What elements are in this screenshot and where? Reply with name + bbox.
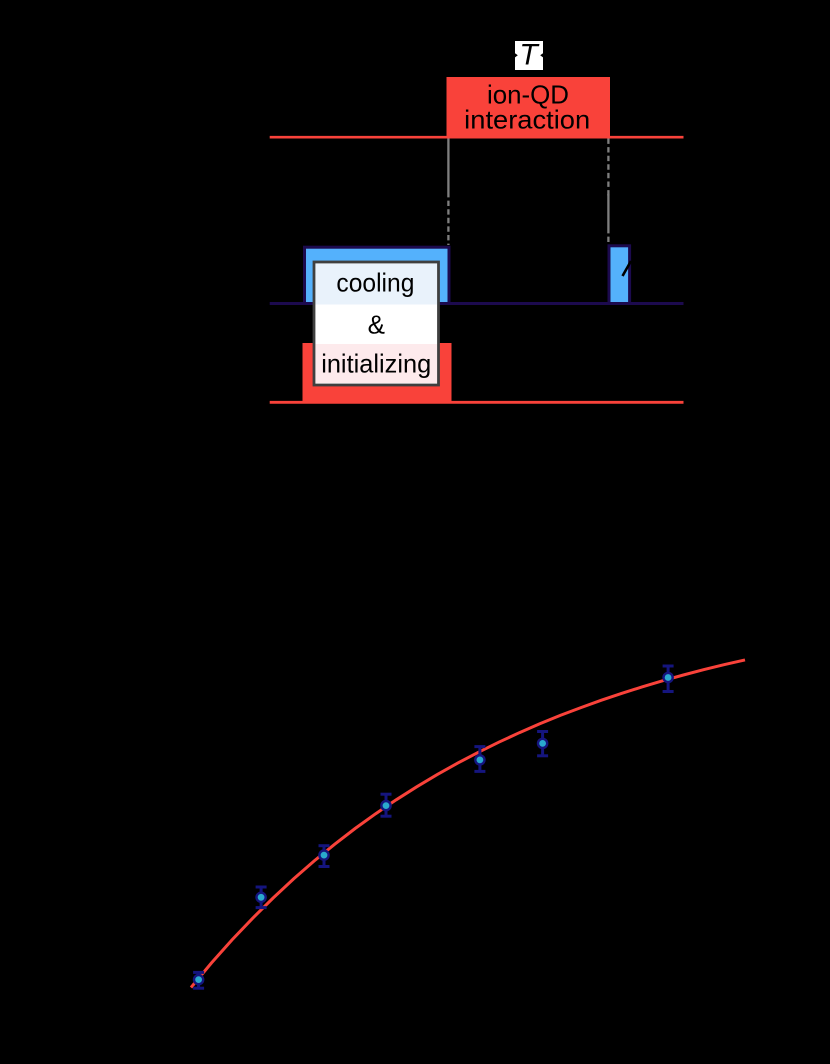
svg-text:interaction: interaction	[464, 105, 590, 135]
arrow notches on T box	[515, 53, 518, 57]
white box for T label	[515, 41, 543, 70]
svg-text:&: &	[368, 310, 385, 340]
red fit curve (panel b)	[191, 660, 745, 988]
dashed gray guide line left	[447, 139, 449, 246]
error bars	[193, 666, 673, 988]
svg-text:T: T	[519, 38, 540, 71]
navy ion baseline	[270, 302, 684, 305]
black slash over small pulse	[623, 261, 632, 276]
svg-text:initializing: initializing	[321, 349, 431, 379]
svg-text:cooling: cooling	[336, 267, 414, 297]
dashed gray guide line right	[607, 139, 609, 245]
label box: cooling & initializing	[314, 262, 439, 385]
blue probe pulse (small)	[609, 246, 630, 304]
red initializing pulse	[303, 343, 452, 404]
wire: top red baseline (QD level)	[270, 136, 684, 139]
ion-QD interaction red block	[447, 77, 611, 138]
data markers	[194, 673, 673, 984]
blue cooling pulse (big)	[305, 247, 450, 303]
red bottom baseline (QD init level)	[270, 401, 684, 404]
